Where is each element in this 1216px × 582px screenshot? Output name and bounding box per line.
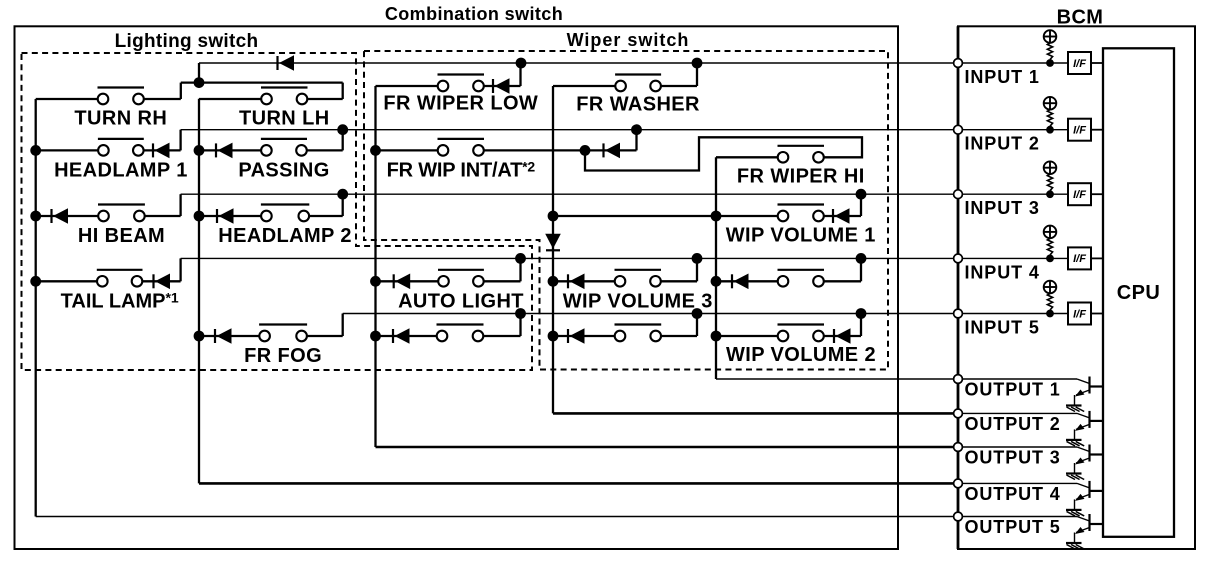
svg-text:FR WIPER HI: FR WIPER HI [737, 166, 865, 188]
svg-text:FR WIP INT/AT*2: FR WIP INT/AT*2 [387, 159, 536, 182]
svg-text:FR WIPER LOW: FR WIPER LOW [383, 93, 538, 115]
svg-text:OUTPUT 3: OUTPUT 3 [965, 448, 1061, 468]
svg-text:TURN LH: TURN LH [239, 108, 330, 130]
svg-text:CPU: CPU [1117, 282, 1160, 304]
svg-text:BCM: BCM [1057, 7, 1104, 29]
svg-text:I/F: I/F [1073, 189, 1086, 201]
svg-text:I/F: I/F [1073, 308, 1086, 320]
svg-text:HI BEAM: HI BEAM [78, 225, 165, 247]
svg-text:TURN RH: TURN RH [74, 108, 167, 130]
svg-text:PASSING: PASSING [238, 160, 329, 182]
svg-text:INPUT 4: INPUT 4 [965, 262, 1040, 282]
svg-text:INPUT 5: INPUT 5 [965, 318, 1040, 338]
svg-text:WIP VOLUME 1: WIP VOLUME 1 [726, 225, 876, 247]
svg-text:OUTPUT 2: OUTPUT 2 [965, 414, 1061, 434]
svg-text:INPUT 2: INPUT 2 [965, 134, 1040, 154]
svg-text:OUTPUT 5: OUTPUT 5 [965, 517, 1061, 537]
svg-text:OUTPUT 4: OUTPUT 4 [965, 484, 1061, 504]
svg-text:WIP VOLUME 3: WIP VOLUME 3 [563, 291, 713, 313]
svg-text:AUTO LIGHT: AUTO LIGHT [398, 291, 524, 313]
svg-text:FR WASHER: FR WASHER [576, 94, 700, 116]
svg-text:INPUT 1: INPUT 1 [965, 67, 1040, 87]
svg-text:WIP VOLUME 2: WIP VOLUME 2 [726, 344, 876, 366]
svg-text:FR FOG: FR FOG [244, 345, 322, 367]
svg-text:Lighting switch: Lighting switch [115, 31, 259, 52]
svg-text:HEADLAMP 1: HEADLAMP 1 [54, 160, 188, 182]
svg-text:TAIL LAMP*1: TAIL LAMP*1 [61, 290, 179, 313]
svg-text:I/F: I/F [1073, 125, 1086, 137]
svg-text:I/F: I/F [1073, 58, 1086, 70]
svg-text:Combination switch: Combination switch [385, 4, 563, 24]
svg-text:INPUT 3: INPUT 3 [965, 198, 1040, 218]
svg-text:Wiper switch: Wiper switch [567, 30, 690, 50]
svg-text:HEADLAMP 2: HEADLAMP 2 [218, 225, 352, 247]
svg-text:OUTPUT 1: OUTPUT 1 [965, 380, 1061, 400]
svg-text:I/F: I/F [1073, 253, 1086, 265]
